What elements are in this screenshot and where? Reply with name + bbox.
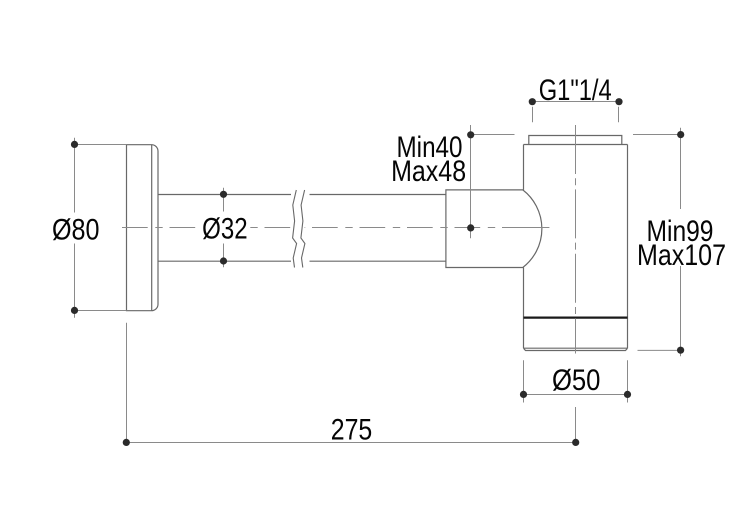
svg-text:Ø50: Ø50 bbox=[552, 364, 601, 397]
svg-text:275: 275 bbox=[331, 413, 373, 446]
tube centerline (horizontal dash-dot) bbox=[122, 227, 543, 229]
dimension Ø32 bbox=[223, 188, 225, 268]
connector nut bbox=[446, 190, 542, 268]
trap body outline bbox=[524, 136, 628, 351]
cap separation line bbox=[524, 317, 628, 319]
dimension G1"1/4 bbox=[532, 102, 619, 123]
svg-text:Max48: Max48 bbox=[391, 155, 466, 188]
tube (horizontal pipe) bbox=[158, 195, 446, 262]
body left edge (interrupted by connector) bbox=[523, 145, 525, 190]
tube centerline final dash bbox=[527, 227, 549, 229]
wall flange body bbox=[127, 145, 159, 311]
dimension Ø80 bbox=[74, 138, 127, 318]
dimension Min99/Max107 bbox=[638, 128, 681, 357]
top cap bbox=[529, 136, 622, 145]
body right edge bbox=[627, 145, 629, 349]
pipe break mark bbox=[290, 190, 307, 268]
svg-text:Ø80: Ø80 bbox=[52, 213, 100, 246]
body bottom edge bbox=[524, 347, 628, 349]
dimension Min40/Max48 bbox=[471, 125, 682, 238]
dimension Ø50 bbox=[524, 360, 628, 402]
svg-text:G1"1/4: G1"1/4 bbox=[539, 74, 612, 107]
bottom rim bbox=[524, 348, 628, 350]
body centerline (vertical dash-dot) bbox=[575, 125, 577, 354]
body top edge bbox=[524, 144, 628, 146]
svg-text:Ø32: Ø32 bbox=[202, 213, 248, 246]
svg-text:Max107: Max107 bbox=[637, 239, 726, 272]
dimension 275 bbox=[126, 323, 575, 443]
